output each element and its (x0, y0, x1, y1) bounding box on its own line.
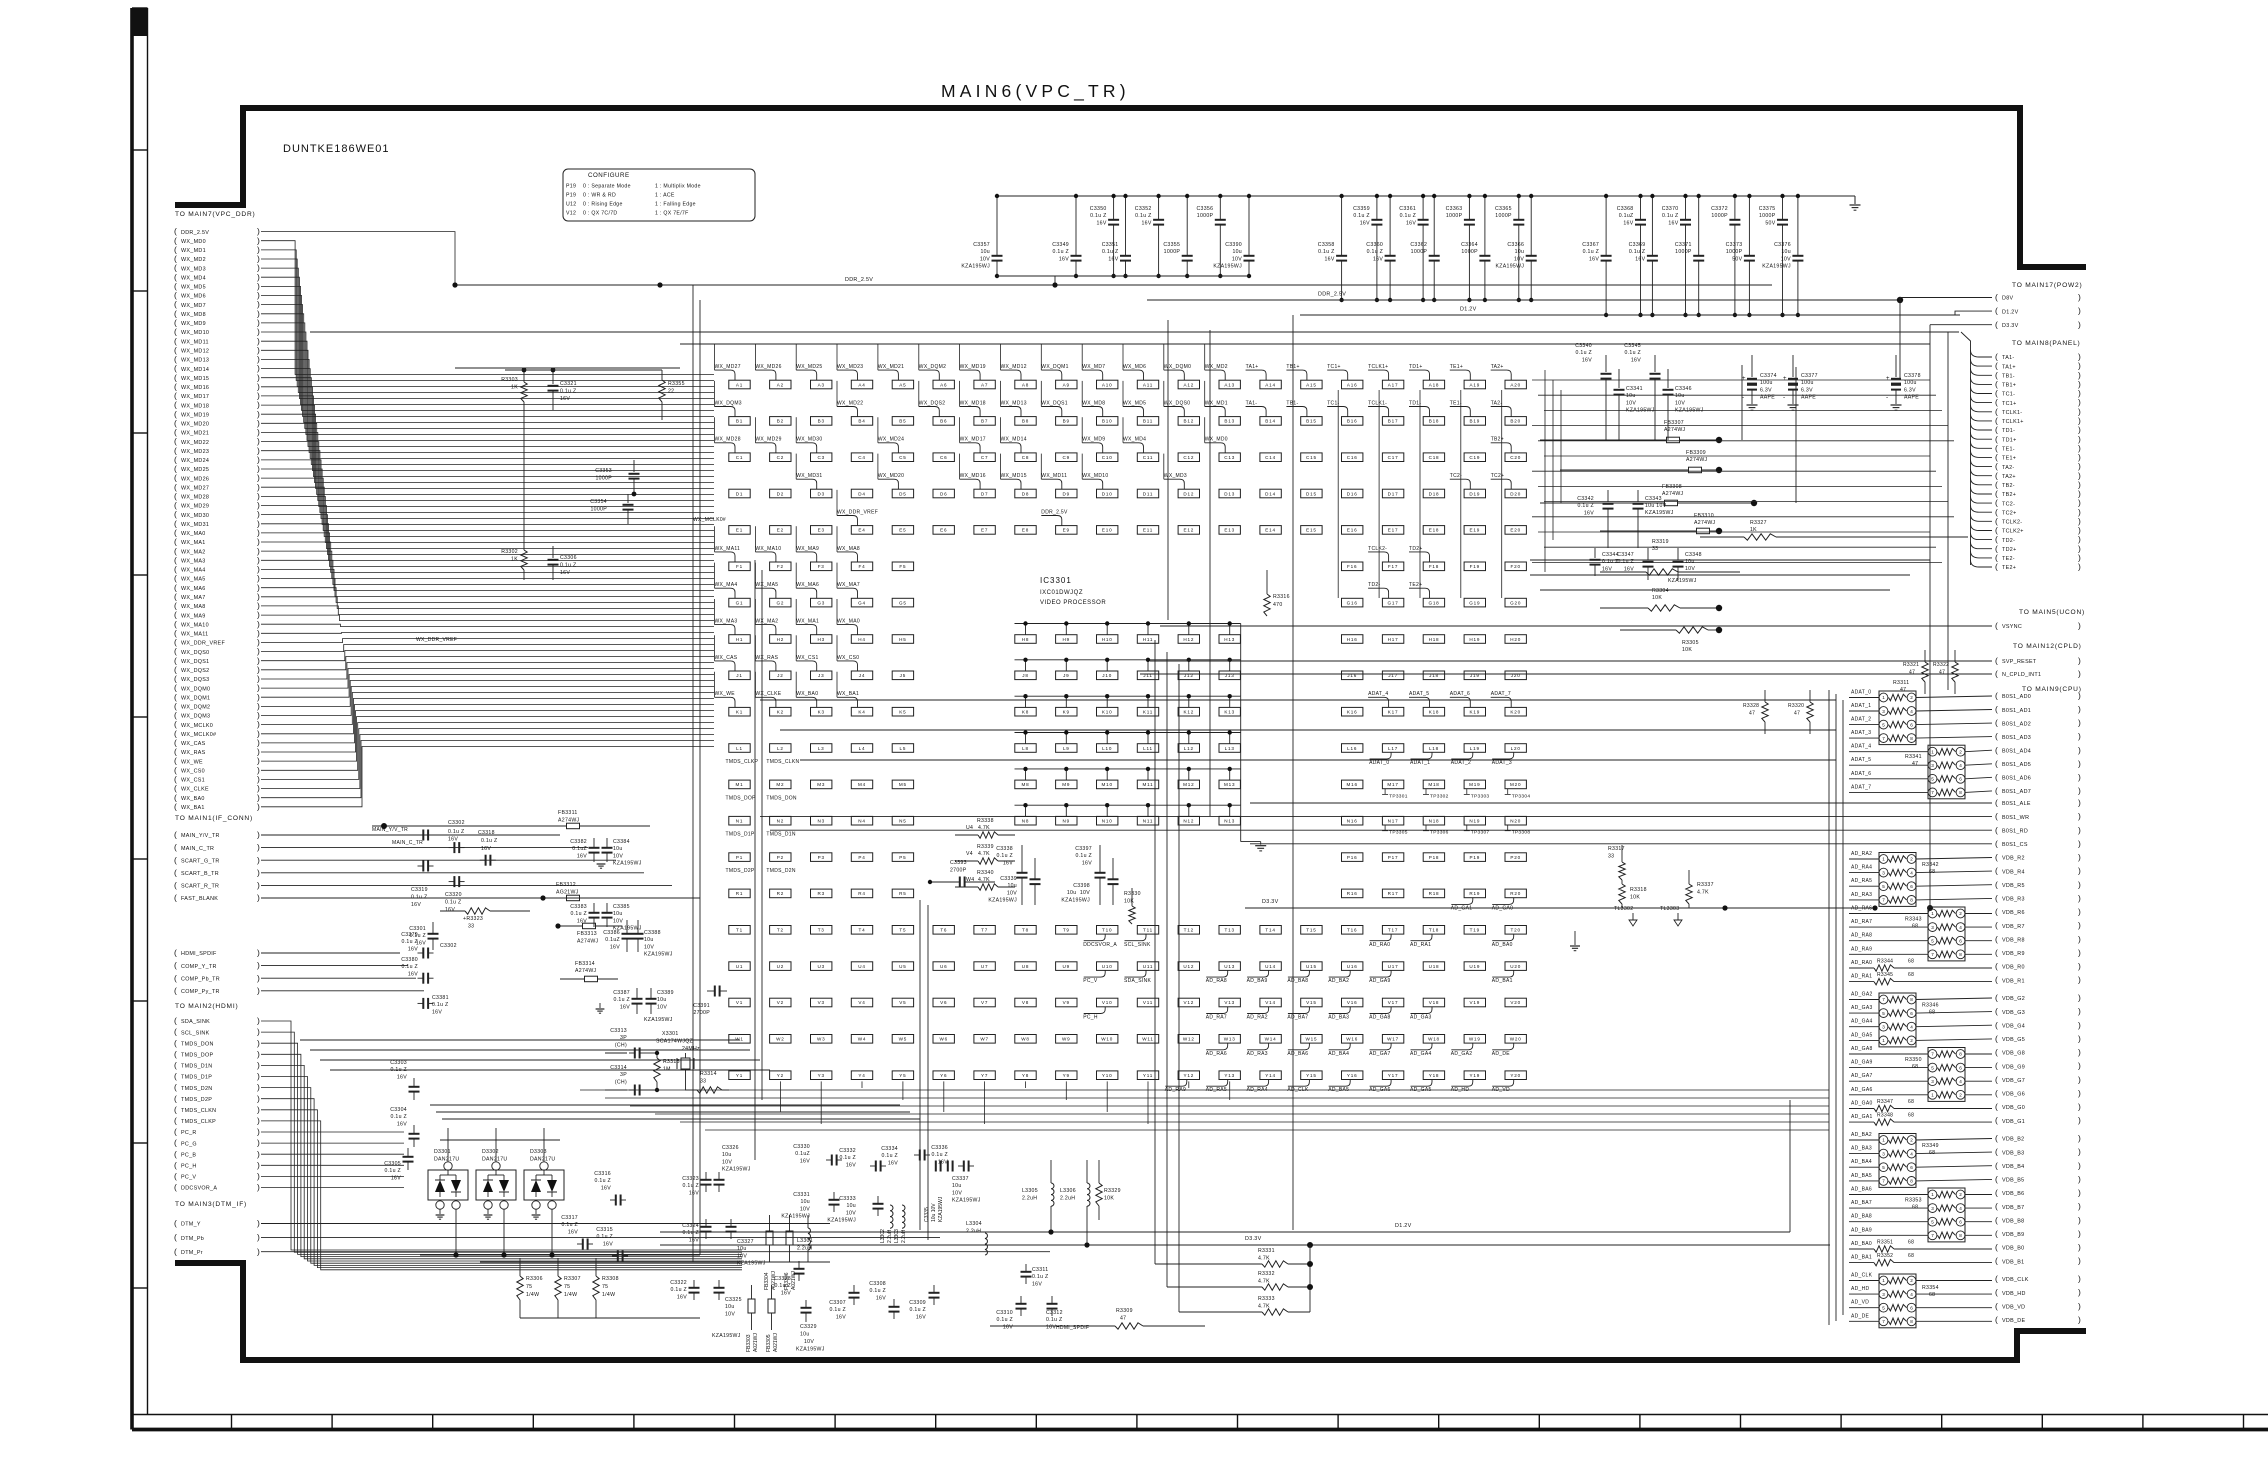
svg-text:100u: 100u (1801, 380, 1814, 386)
svg-text:R3343: R3343 (1905, 917, 1922, 923)
svg-text:Y17: Y17 (1388, 1073, 1399, 1078)
svg-text:AD_BA2: AD_BA2 (1328, 978, 1349, 984)
resistor R3316 470 (1264, 570, 1290, 616)
capacitor C3378 100u electrolytic (1886, 355, 1921, 410)
svg-text:Y14: Y14 (1265, 1073, 1276, 1078)
resistor array R3350 68 (1905, 1048, 1965, 1102)
svg-text:AD_GA3: AD_GA3 (1851, 1005, 1873, 1011)
svg-text:1/4W: 1/4W (602, 1292, 615, 1298)
svg-text:): ) (257, 1049, 260, 1059)
svg-text:(: ( (174, 1016, 177, 1026)
svg-text:4: 4 (1910, 870, 1913, 875)
wires from COMP connector (261, 953, 424, 991)
svg-text:B0S1_AD0: B0S1_AD0 (2002, 694, 2031, 700)
svg-text:(: ( (1995, 798, 1998, 808)
capacitor C3370 0.1u Z (1662, 194, 1691, 317)
svg-text:U4: U4 (858, 964, 865, 969)
capacitor C3349 0.1u Z (1052, 194, 1081, 278)
capacitor C3352 0.1u Z (1135, 194, 1164, 278)
svg-text:U9: U9 (1063, 964, 1070, 969)
svg-text:16V: 16V (1373, 256, 1383, 262)
svg-text:B13: B13 (1224, 419, 1235, 424)
svg-text:CONFIGURE: CONFIGURE (588, 172, 630, 179)
svg-text:C3304: C3304 (390, 1107, 407, 1113)
svg-text:(: ( (1995, 993, 1998, 1003)
svg-text:TMDS_DOP: TMDS_DOP (181, 1053, 213, 1059)
svg-text:W16: W16 (1346, 1037, 1358, 1042)
svg-text:VDB_G3: VDB_G3 (2002, 1010, 2025, 1016)
svg-text:16V: 16V (916, 1314, 926, 1320)
svg-text:VDB_B2: VDB_B2 (2002, 1137, 2024, 1143)
svg-text:WX_BA0: WX_BA0 (796, 691, 818, 697)
svg-text:G16: G16 (1347, 600, 1358, 605)
svg-text:(: ( (174, 1127, 177, 1137)
svg-text:AD_RA6: AD_RA6 (1851, 906, 1872, 912)
svg-text:L3305: L3305 (1022, 1188, 1038, 1194)
svg-text:AD_DE: AD_DE (1851, 1313, 1870, 1319)
svg-text:0.1u Z: 0.1u Z (1629, 249, 1646, 255)
svg-text:(: ( (1995, 292, 1998, 302)
svg-text:E12: E12 (1184, 528, 1195, 533)
capacitor C3306 0.1u Z (548, 546, 577, 580)
svg-text:A5: A5 (899, 382, 906, 387)
test point TP3306 (1423, 825, 1449, 836)
svg-text:): ) (257, 1071, 260, 1081)
svg-text:10u: 10u (613, 911, 623, 917)
svg-text:V7: V7 (981, 1000, 988, 1005)
test point TP3302 (1423, 789, 1449, 800)
svg-text:WX_MA0: WX_MA0 (181, 531, 206, 537)
svg-text:16V: 16V (888, 1160, 898, 1166)
wires from MAIN3 connector (261, 1224, 1050, 1252)
svg-text:VDB_B8: VDB_B8 (2002, 1218, 2024, 1224)
svg-text:1000P: 1000P (1495, 213, 1512, 219)
svg-text:(: ( (174, 1232, 177, 1242)
svg-text:C3341: C3341 (1626, 386, 1643, 392)
svg-text:M8: M8 (1022, 782, 1030, 787)
svg-text:+: + (1742, 376, 1746, 382)
capacitor C3372 1000P (1711, 194, 1740, 317)
svg-text:E2: E2 (777, 528, 784, 533)
svg-text:SDA_SINK: SDA_SINK (181, 1019, 210, 1025)
svg-text:): ) (2078, 319, 2081, 329)
svg-text:V9: V9 (1063, 1000, 1070, 1005)
net D3.3V rail (mid right) (1245, 899, 1878, 911)
wires from MAIN1 connector (261, 835, 700, 898)
svg-text:(: ( (174, 855, 177, 865)
wire feed to C1 (714, 417, 716, 443)
svg-text:L13: L13 (1225, 746, 1235, 751)
svg-text:): ) (257, 1038, 260, 1048)
svg-text:M13: M13 (1224, 782, 1235, 787)
svg-text:R3333: R3333 (1258, 1296, 1275, 1302)
vertical wires right of grid (1545, 370, 1561, 572)
svg-text:R3340: R3340 (977, 870, 994, 876)
svg-text:33: 33 (1608, 854, 1614, 860)
svg-text:G19: G19 (1469, 600, 1480, 605)
svg-text:): ) (257, 1082, 260, 1092)
svg-text:7: 7 (1882, 736, 1885, 741)
svg-text:(: ( (174, 985, 177, 995)
svg-text:M16: M16 (1347, 782, 1358, 787)
svg-text:TMDS_D2P: TMDS_D2P (181, 1097, 212, 1103)
svg-text:U6: U6 (940, 964, 947, 969)
svg-text:(: ( (1995, 1115, 1998, 1125)
svg-text:16V: 16V (1582, 357, 1592, 363)
svg-text:M10: M10 (1102, 782, 1113, 787)
svg-text:C3310: C3310 (996, 1310, 1013, 1316)
svg-text:R3342: R3342 (1922, 862, 1939, 868)
svg-text:4: 4 (1959, 1079, 1962, 1084)
svg-text:A274WJ: A274WJ (558, 818, 580, 824)
svg-text:WX_MD27: WX_MD27 (715, 364, 741, 370)
svg-text:): ) (2078, 758, 2081, 768)
long horizontal wires (300, 332, 1959, 1262)
svg-text:Y15: Y15 (1306, 1073, 1317, 1078)
svg-text:0.1u Z: 0.1u Z (670, 1287, 687, 1293)
svg-text:TD2+: TD2+ (2002, 547, 2017, 553)
capacitor C3398 10u 10V (1061, 858, 1118, 905)
svg-text:(: ( (1995, 947, 1998, 957)
svg-text:TCLK2-: TCLK2- (1368, 546, 1387, 552)
capacitor C3327 10u (726, 1219, 766, 1267)
svg-text:L3302: L3302 (880, 1229, 886, 1243)
svg-text:C3369: C3369 (1629, 242, 1646, 248)
svg-text:16V: 16V (432, 1009, 442, 1015)
svg-text:2: 2 (1959, 911, 1962, 916)
svg-text:FB3312: FB3312 (556, 882, 576, 888)
svg-text:H16: H16 (1347, 637, 1358, 642)
svg-text:D20: D20 (1510, 491, 1521, 496)
svg-text:W4: W4 (858, 1037, 867, 1042)
svg-text:R4: R4 (858, 891, 865, 896)
svg-text:R3331: R3331 (1258, 1248, 1275, 1254)
svg-text:C3390: C3390 (1225, 242, 1242, 248)
svg-text:W11: W11 (1142, 1037, 1154, 1042)
svg-text:): ) (2078, 852, 2081, 862)
svg-text:T13: T13 (1225, 928, 1235, 933)
svg-text:(: ( (1995, 866, 1998, 876)
svg-text:V10: V10 (1102, 1000, 1113, 1005)
svg-text:MAIN_Y/V_TR: MAIN_Y/V_TR (372, 827, 408, 833)
svg-text:TD2-: TD2- (2002, 538, 2015, 544)
svg-text:1K: 1K (511, 557, 518, 563)
svg-text:WX_MA5: WX_MA5 (181, 577, 206, 583)
ground below C3387 (596, 1003, 605, 1013)
svg-text:C3302: C3302 (440, 943, 457, 949)
svg-text:WX_MA8: WX_MA8 (837, 546, 860, 552)
svg-text:E3: E3 (818, 528, 825, 533)
svg-text:(: ( (174, 1082, 177, 1092)
svg-text:N13: N13 (1224, 819, 1235, 824)
svg-text:T5: T5 (899, 928, 906, 933)
svg-text:): ) (257, 842, 260, 852)
svg-text:): ) (2078, 1160, 2081, 1170)
svg-text:68: 68 (1929, 1150, 1935, 1156)
wire feed to F4 (836, 526, 838, 552)
block outline top-left step (175, 108, 2086, 267)
svg-text:WX_MD12: WX_MD12 (181, 349, 209, 355)
resistor R3348 68 (1849, 1113, 1992, 1126)
svg-text:WX_MD1: WX_MD1 (1205, 400, 1228, 406)
capacitor C3362 1000P (1410, 194, 1439, 302)
svg-text:3: 3 (1882, 1151, 1885, 1156)
svg-text:VDB_DE: VDB_DE (2002, 1318, 2025, 1324)
svg-text:(: ( (174, 960, 177, 970)
svg-text:10u: 10u (952, 1183, 962, 1189)
svg-text:): ) (257, 1160, 260, 1170)
svg-text:K19: K19 (1470, 710, 1481, 715)
svg-text:(: ( (1995, 1147, 1998, 1157)
svg-text:ADAT_2: ADAT_2 (1451, 760, 1471, 766)
svg-text:WX_MD23: WX_MD23 (837, 364, 863, 370)
svg-text:0.1uZ: 0.1uZ (1619, 213, 1634, 219)
svg-text:0.1u Z: 0.1u Z (596, 1234, 613, 1240)
svg-text:W13: W13 (1224, 1037, 1236, 1042)
svg-text:5: 5 (1882, 1305, 1885, 1310)
svg-text:): ) (2078, 1256, 2081, 1266)
svg-text:): ) (2078, 669, 2081, 679)
inductor L3306 2.2uH (1060, 1160, 1090, 1248)
svg-text:R3347: R3347 (1877, 1099, 1893, 1105)
resistor R3319 33 (1600, 539, 1740, 575)
capacitor C3312 0.1u Z (1046, 1296, 1063, 1330)
svg-text:C3386: C3386 (603, 930, 620, 936)
IC3301 pin row Y (Y1-Y20) (729, 1071, 1527, 1080)
svg-text:WX_MD27: WX_MD27 (181, 485, 209, 491)
svg-text:V3: V3 (818, 1000, 825, 1005)
svg-text:P2: P2 (777, 855, 784, 860)
svg-text:AD_BA8: AD_BA8 (1851, 1214, 1872, 1220)
svg-text:): ) (2078, 811, 2081, 821)
svg-text:V16: V16 (1347, 1000, 1358, 1005)
svg-text:B15: B15 (1306, 419, 1317, 424)
capacitor C3383 0.1u Z (570, 903, 599, 927)
svg-text:16V: 16V (1631, 357, 1641, 363)
wire feed to K2 (754, 672, 756, 698)
svg-text:16V: 16V (1602, 566, 1612, 572)
svg-text:R18: R18 (1429, 891, 1440, 896)
wire feed to K1 (714, 672, 716, 698)
svg-text:10K: 10K (1682, 647, 1692, 653)
svg-text:0.1u Z: 0.1u Z (869, 1288, 886, 1294)
svg-text:2.2uH: 2.2uH (901, 1229, 907, 1243)
svg-text:0.1u Z: 0.1u Z (1052, 249, 1069, 255)
ground mid right (1570, 931, 1580, 951)
svg-text:R16: R16 (1347, 891, 1358, 896)
svg-text:(: ( (1995, 1047, 1998, 1057)
IC3301 pin row K (K1-K20) (729, 707, 1527, 716)
svg-text:T14: T14 (1265, 928, 1275, 933)
capacitor C3360 0.1u Z (1366, 194, 1395, 302)
resistor array R3343 68 (1905, 907, 1965, 961)
svg-text:A274WJ: A274WJ (1662, 491, 1684, 497)
svg-text:Y4: Y4 (858, 1073, 865, 1078)
svg-text:(: ( (1995, 772, 1998, 782)
svg-text:DDCSVOR_A: DDCSVOR_A (181, 1186, 217, 1192)
svg-text:WX_BA1: WX_BA1 (181, 805, 205, 811)
svg-text:3: 3 (1882, 1024, 1885, 1029)
svg-text:): ) (2078, 947, 2081, 957)
ground below C3385 (597, 863, 606, 865)
svg-text:0.1uZ: 0.1uZ (605, 937, 620, 943)
svg-text:C3376: C3376 (1774, 242, 1791, 248)
wire braid from MAIN7 connector to IC3301 (261, 232, 714, 807)
svg-text:5: 5 (1882, 722, 1885, 727)
svg-text:16V: 16V (391, 1175, 401, 1181)
svg-text:AD_RA8: AD_RA8 (1206, 978, 1227, 984)
svg-text:WX_DQS2: WX_DQS2 (181, 668, 209, 674)
svg-text:H10: H10 (1102, 637, 1113, 642)
svg-text:10V: 10V (1232, 256, 1242, 262)
svg-text:(: ( (174, 1171, 177, 1181)
wire feed to E4 (836, 490, 838, 516)
svg-text:L3304: L3304 (966, 1221, 982, 1227)
svg-text:D11: D11 (1143, 491, 1154, 496)
svg-text:WX_MD9: WX_MD9 (1082, 437, 1105, 443)
svg-text:TMDS_CLKP: TMDS_CLKP (726, 759, 759, 765)
svg-text:D17: D17 (1388, 491, 1399, 496)
svg-text:): ) (2078, 1287, 2081, 1297)
svg-text:KZA195WJ: KZA195WJ (613, 861, 642, 867)
svg-text:AD_BA2: AD_BA2 (1851, 1132, 1872, 1138)
svg-text:WX_MA11: WX_MA11 (181, 632, 208, 638)
svg-text:FB3305: FB3305 (766, 1334, 772, 1352)
svg-text:16V: 16V (1324, 256, 1334, 262)
vertical bundle to R3331-33 (1155, 640, 1179, 1312)
svg-text:W7: W7 (980, 1037, 989, 1042)
svg-text:N10: N10 (1102, 819, 1113, 824)
svg-text:(: ( (174, 842, 177, 852)
svg-text:TA1-: TA1- (1246, 400, 1258, 406)
svg-text:ADAT_7: ADAT_7 (1491, 691, 1511, 697)
svg-text:G5: G5 (899, 600, 907, 605)
svg-text:N17: N17 (1388, 819, 1399, 824)
svg-text:WX_MD31: WX_MD31 (796, 473, 822, 479)
svg-text:10V: 10V (952, 1190, 962, 1196)
svg-text:A9: A9 (1063, 382, 1070, 387)
svg-text:16V: 16V (938, 1159, 948, 1165)
svg-text:DTM_Pb: DTM_Pb (181, 1236, 204, 1242)
svg-text:C3367: C3367 (1582, 242, 1599, 248)
svg-text:): ) (2078, 1047, 2081, 1057)
svg-text:A2: A2 (777, 382, 784, 387)
sheet frame left ruler (132, 8, 148, 1430)
svg-text:R3350: R3350 (1905, 1057, 1922, 1063)
svg-text:C3381: C3381 (432, 995, 449, 1001)
svg-text:): ) (257, 1232, 260, 1242)
svg-text:6.3V: 6.3V (1904, 387, 1916, 393)
svg-text:16V: 16V (846, 1162, 856, 1168)
svg-text:C3305: C3305 (384, 1161, 401, 1167)
resistor R3351 68 (1849, 1240, 1992, 1253)
wire feed to F2 (754, 526, 756, 552)
wire feed to H4 (836, 599, 838, 625)
svg-text:SCA174WJQZ: SCA174WJQZ (656, 1039, 693, 1045)
svg-text:AD_RA2: AD_RA2 (1851, 851, 1872, 857)
resistor R3328 47 (1743, 690, 1768, 734)
svg-text:TO MAIN5(UCON): TO MAIN5(UCON) (2019, 609, 2085, 616)
svg-text:WX_MD5: WX_MD5 (181, 285, 206, 291)
svg-text:5: 5 (1882, 884, 1885, 889)
svg-text:(: ( (174, 1093, 177, 1103)
svg-text:C3368: C3368 (1617, 206, 1634, 212)
svg-text:10u: 10u (644, 937, 654, 943)
svg-text:AD_GA9: AD_GA9 (1369, 978, 1391, 984)
svg-text:): ) (2078, 731, 2081, 741)
svg-text:VDB_B4: VDB_B4 (2002, 1164, 2024, 1170)
svg-text:): ) (2078, 1314, 2081, 1324)
svg-text:0.1u Z: 0.1u Z (411, 895, 428, 901)
svg-text:WX_MD5: WX_MD5 (1123, 400, 1146, 406)
svg-text:TMDS_D2N: TMDS_D2N (181, 1086, 212, 1092)
svg-text:0.1u Z: 0.1u Z (560, 563, 577, 569)
svg-text:VDB_B3: VDB_B3 (2002, 1150, 2024, 1156)
wire feed to H1 (714, 599, 716, 625)
svg-text:): ) (257, 1171, 260, 1181)
svg-text:D18: D18 (1429, 491, 1440, 496)
svg-text:FB3310: FB3310 (1694, 513, 1714, 519)
svg-text:ADAT_3: ADAT_3 (1851, 730, 1871, 736)
wire feed to D5 (877, 454, 879, 480)
svg-text:TE1-: TE1- (2002, 447, 2015, 453)
svg-text:R3338: R3338 (977, 818, 994, 824)
svg-text:TMDS_DOP: TMDS_DOP (726, 795, 757, 801)
capacitor C3330 0.1uZ (793, 1144, 842, 1166)
svg-text:): ) (2078, 1074, 2081, 1084)
capacitor C3304 0.1u Z (390, 1107, 419, 1147)
svg-text:C3334: C3334 (881, 1146, 898, 1152)
svg-text:R17: R17 (1388, 891, 1399, 896)
wire feed to J3 (795, 635, 797, 661)
svg-text:J4: J4 (859, 673, 865, 678)
svg-text:KZA195WJ: KZA195WJ (952, 1198, 981, 1204)
svg-text:C1: C1 (736, 455, 743, 460)
svg-text:W19: W19 (1469, 1037, 1481, 1042)
svg-text:WX_WE: WX_WE (181, 759, 203, 765)
svg-text:AD_RA1: AD_RA1 (1410, 942, 1431, 948)
wire bundle under grid bottom (580, 1081, 1829, 1130)
svg-text:P16: P16 (1347, 855, 1358, 860)
svg-text:(: ( (1995, 1274, 1998, 1284)
svg-text:H2: H2 (777, 637, 784, 642)
svg-text:2: 2 (1910, 1138, 1913, 1143)
svg-text:6: 6 (1910, 722, 1913, 727)
svg-text:TA1+: TA1+ (1246, 364, 1259, 370)
capacitor C3313 3P (610, 1028, 645, 1059)
svg-text:B0S1_CS: B0S1_CS (2002, 842, 2028, 848)
svg-text:): ) (2078, 1115, 2081, 1125)
svg-text:C12: C12 (1183, 455, 1194, 460)
svg-text:10V: 10V (1626, 400, 1636, 406)
wire feed to A12 (1163, 345, 1165, 371)
capacitor C3322 0.1u Z (670, 1280, 699, 1300)
svg-text:(: ( (1995, 1174, 1998, 1184)
svg-text:): ) (2078, 1242, 2081, 1252)
resistor R3322 47 (1933, 650, 1958, 694)
resistor array R3341 47 (1905, 745, 1965, 799)
svg-text:M1: M1 (736, 782, 744, 787)
svg-text:AD_BA3: AD_BA3 (1328, 1015, 1349, 1021)
ground (mid grid ladder) (1255, 845, 1266, 847)
svg-text:T9: T9 (1063, 928, 1070, 933)
svg-text:0.1u Z: 0.1u Z (1400, 213, 1417, 219)
svg-text:AD_RA8: AD_RA8 (1851, 933, 1872, 939)
svg-text:Y1: Y1 (736, 1073, 743, 1078)
svg-text:33: 33 (700, 1079, 706, 1085)
svg-text:0.1uZ: 0.1uZ (572, 846, 587, 852)
capacitor (418, 861, 434, 872)
